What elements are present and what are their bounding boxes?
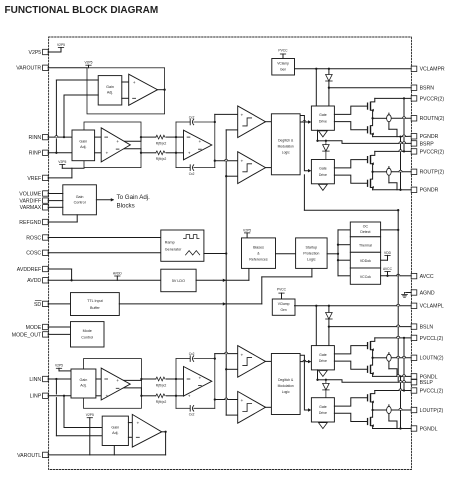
svg-text:Adj.: Adj. (80, 145, 86, 149)
node switch output (left N) (371, 357, 373, 359)
ground AGND (402, 293, 408, 298)
svg-text:RINP: RINP (29, 151, 42, 157)
wire gain adj to buffer R + (122, 81, 129, 83)
svg-text:References: References (249, 257, 268, 261)
comparator U5 (R bottom) (238, 152, 266, 184)
node switch output (right N) (371, 117, 373, 119)
capacitor C3 Cx2 (top) (189, 352, 195, 361)
hop BSRP over PVCC bus (402, 142, 405, 144)
wire resistor R2 to integrator (166, 152, 176, 154)
svg-text:BSLP: BSLP (420, 380, 434, 386)
biases and references block (242, 238, 276, 269)
op-amp U2 diff input R (101, 128, 130, 162)
svg-text:RINN: RINN (29, 135, 42, 141)
pin PVCCR(2) (411, 96, 444, 103)
hop PGNDL over PVCC bus (402, 375, 405, 377)
svg-text:Cx2: Cx2 (189, 352, 195, 356)
5V LDO block (161, 269, 196, 292)
wire SD to startup logic (262, 268, 312, 304)
gate drive block (left N) (311, 346, 334, 370)
svg-text:AVDD: AVDD (27, 278, 41, 284)
transistor Q high (right P) (367, 155, 374, 165)
svg-text:+: + (188, 152, 191, 157)
transistor Q high (left P) (367, 393, 374, 403)
node ramp comp stub RN (225, 175, 227, 177)
node RINN riser (63, 136, 65, 138)
svg-text:Adj.: Adj. (80, 383, 86, 387)
hop LOUTP over PGND bus (399, 408, 402, 410)
supply V2P5 (buffer R) (84, 60, 92, 67)
wire PGND line (left P) (373, 428, 412, 430)
svg-text:AVDDREF: AVDDREF (17, 267, 41, 273)
wire VAROUTR to buffer feedback box (48, 67, 87, 69)
svg-text:TTL Input: TTL Input (87, 299, 103, 303)
wire PVCC rail (right P) (375, 150, 411, 152)
node integrator R in+ (175, 136, 177, 138)
wire gain adj to buffer L - (128, 436, 132, 438)
mode control block (71, 322, 105, 347)
node RINP riser (55, 152, 57, 154)
svg-text:BSLN: BSLN (420, 325, 434, 331)
capacitor C1 Cx2 (top) (189, 115, 195, 125)
wire source low to PGND (left N) (371, 374, 372, 377)
svg-text:LOUTP(2): LOUTP(2) (420, 408, 444, 414)
svg-text:BSRP: BSRP (420, 141, 435, 147)
wire comparator U5 out (266, 167, 272, 169)
svg-text:V2P5: V2P5 (58, 160, 66, 164)
wire fault rail to mod logic R (304, 175, 399, 212)
svg-text:PGNDR: PGNDR (420, 134, 439, 140)
wire vclamp to gate drive RN (315, 69, 317, 106)
wire integrator L in+ (176, 378, 184, 380)
svg-text:+: + (105, 152, 108, 157)
wire vclamp to diode LN (328, 306, 330, 313)
hop ROUTP over PGND bus (399, 170, 402, 172)
svg-text:Cx2: Cx2 (189, 412, 195, 416)
wire diff amp L out+ (118, 379, 141, 380)
pin LOUTN(2) (411, 355, 444, 362)
svg-text:Mode: Mode (83, 329, 92, 333)
pin PVCCR(2) (411, 149, 444, 156)
vclamp gen block L (272, 299, 295, 315)
pin COSC (26, 250, 48, 257)
wire drain low to node (right P) (371, 172, 372, 179)
wire gate high (left N) (334, 346, 367, 354)
current sense (right P) (387, 167, 397, 190)
comparator U9 (L bottom) (238, 391, 266, 423)
gate drive block (right P) (311, 160, 334, 184)
wire diff amp L out- (118, 388, 141, 396)
label to gain adj blocks (117, 194, 151, 209)
bus PVCCL vertical (403, 337, 405, 392)
svg-text:COSC: COSC (26, 251, 41, 257)
svg-text:Modulation: Modulation (278, 145, 294, 149)
wire ramp to comparator C2 R (226, 175, 238, 177)
wire resistor R1 to integrator (166, 136, 176, 138)
wire VAROUTL (48, 454, 165, 456)
wire integrator R out+ to comparator (215, 114, 238, 122)
svg-text:+: + (240, 159, 243, 164)
node LINP riser (63, 395, 65, 397)
svg-text:Protection: Protection (303, 251, 319, 255)
wire V2P5 pin (48, 51, 61, 53)
diode D3 bootstrap LN (326, 313, 333, 320)
svg-text:Gate: Gate (319, 167, 327, 171)
wire comparator U8 out (266, 360, 272, 362)
wire integrator R in+ (176, 136, 184, 138)
wire VOLUME (48, 193, 63, 195)
svg-text:V2P5: V2P5 (28, 50, 41, 56)
svg-text:ROUTN(2): ROUTN(2) (420, 116, 445, 122)
svg-text:+: + (116, 379, 119, 384)
wire PVCC rail (left P) (375, 390, 411, 392)
hop ROUTN over PVCC bus (402, 117, 405, 119)
pin BSLN (411, 324, 433, 331)
svg-text:+: + (198, 140, 201, 145)
wire output line (right N) (373, 117, 412, 119)
svg-text:ROSC: ROSC (26, 235, 41, 241)
wire drain low to node (left P) (371, 410, 372, 417)
svg-text:Gate: Gate (319, 113, 327, 117)
svg-text:OC: OC (363, 225, 369, 229)
svg-text:Gate: Gate (319, 353, 327, 357)
wire buffer R output (158, 89, 165, 91)
node LINN riser (55, 378, 57, 380)
svg-text:Deglitch &: Deglitch & (278, 139, 294, 143)
wire to diff amp R in- (95, 152, 102, 154)
supply V2P5 (input stage R) (58, 160, 84, 168)
node bracket feed (337, 253, 339, 255)
svg-text:PVCCL(2): PVCCL(2) (420, 336, 444, 342)
svg-text:Drive: Drive (319, 119, 327, 123)
thermal block (350, 237, 380, 253)
wire source high to node (right N) (371, 110, 372, 118)
pin RINP (29, 150, 48, 157)
svg-text:VARDIFF: VARDIFF (19, 199, 41, 205)
wire BSLN line (329, 326, 411, 328)
wire to resistor R4 (141, 395, 155, 397)
transistor Q high (right N) (367, 102, 374, 112)
svg-text:ROUTP(2): ROUTP(2) (420, 170, 445, 176)
ramp generator block (161, 230, 204, 261)
op-amp U7 integrator L (184, 367, 212, 400)
wire gate high (right N) (334, 106, 367, 114)
svg-text:VCLAMPR: VCLAMPR (420, 67, 445, 73)
hop BSRP over PGND bus (399, 142, 402, 144)
wire to resistor R1 (141, 136, 156, 138)
svg-text:MODE_OUT: MODE_OUT (12, 332, 42, 338)
op-amp U1 buffer R (129, 74, 158, 105)
gain adj block (input stage R) (72, 130, 95, 161)
wire gate high (right P) (334, 160, 367, 168)
wire gate low (right N) (334, 122, 367, 130)
wire BSLP line (326, 380, 411, 382)
diode D1 bootstrap RN (326, 75, 333, 82)
node stage L out+ (140, 378, 142, 380)
ground marker under gate drive (right N) (319, 131, 328, 137)
svg-text:+: + (240, 353, 243, 358)
svg-text:Ramp: Ramp (165, 240, 175, 244)
title (5, 5, 159, 16)
wire to diff amp L in- (96, 395, 101, 397)
feedback loop box U2 (input stage R) (84, 122, 141, 168)
svg-text:V2P5: V2P5 (55, 364, 63, 368)
node AVCC tap (386, 275, 388, 277)
pin BSRP (411, 141, 434, 148)
pin V2P5 (28, 49, 48, 56)
supply PVCC (clamp R) (278, 48, 288, 58)
node bracket vddok (337, 259, 339, 261)
wire VARMAX (48, 206, 63, 208)
pin AVCC (411, 273, 434, 280)
pin RINN (29, 134, 49, 141)
svg-text:Cx2: Cx2 (189, 172, 195, 176)
pin ROUTP(2) (411, 169, 444, 176)
wire 5V LDO output (196, 279, 249, 281)
svg-text:VClamp: VClamp (278, 302, 290, 306)
svg-text:Drive: Drive (319, 173, 327, 177)
wire output line (left N) (373, 357, 412, 359)
hop VCLAMPL over fault rail (397, 304, 400, 306)
resistor R3 Rfbx2 (156, 377, 167, 387)
svg-text:VAROUTR: VAROUTR (16, 66, 41, 72)
pin MODE (26, 324, 49, 331)
wire OC detect to fault rail (381, 229, 399, 231)
node diode LP feed (325, 379, 327, 381)
svg-text:VOLUME: VOLUME (19, 191, 41, 197)
pin VARDIFF (19, 198, 48, 205)
svg-text:V2P5: V2P5 (86, 413, 94, 417)
svg-text:+: + (116, 140, 119, 145)
svg-text:Drive: Drive (319, 411, 327, 415)
wire monitor bracket (338, 230, 350, 276)
wire RINN (48, 136, 72, 138)
wire to diff amp L in+ (96, 378, 101, 380)
wire biases to startup (276, 253, 296, 255)
wire source high to node (left P) (371, 402, 372, 410)
gain adj block (buffer R) (98, 76, 122, 105)
gain adj block (input stage L) (71, 369, 96, 398)
pin PVCCL(2) (411, 388, 443, 395)
node stage L out- (140, 395, 142, 397)
svg-text:Biases: Biases (253, 245, 264, 249)
svg-text:PGNDL: PGNDL (420, 426, 438, 432)
wire drain low to node (right N) (371, 118, 372, 125)
gate drive block (right N) (311, 106, 334, 130)
svg-text:Modulation: Modulation (278, 384, 294, 388)
wire to resistor R3 (141, 378, 155, 380)
wire PGND line (right P) (373, 189, 412, 191)
pin BSRN (411, 85, 434, 92)
node ramp comp stub LN (225, 368, 227, 370)
svg-text:Adj.: Adj. (107, 90, 113, 94)
wire resistor R3 to integrator L (166, 378, 176, 380)
comparator U8 (L top) (238, 346, 266, 378)
svg-text:Drive: Drive (319, 359, 327, 363)
svg-text:Startup: Startup (306, 245, 318, 249)
wire source high to node (left N) (371, 350, 372, 358)
pin VCLAMPR (411, 66, 445, 73)
wire VCLAMPR line (295, 68, 412, 70)
wire COSC (48, 252, 161, 254)
svg-text:5V LDO: 5V LDO (172, 279, 185, 283)
node fault rail OC (397, 229, 399, 231)
hop LOUTN over fault rail (397, 356, 400, 358)
wire ROSC (48, 237, 161, 239)
supply V2P5 (input stage L) (55, 364, 71, 371)
ground marker under gate drive (left N) (319, 371, 328, 377)
wire MODE_OUT (48, 333, 70, 335)
svg-text:Adj.: Adj. (112, 431, 118, 435)
node integrator L out+ (corner) (214, 357, 216, 359)
wire riser LINN to buffer L (56, 379, 102, 436)
wire integrator L out+ to comparator (215, 352, 238, 359)
transistor Q low (left P) (367, 417, 374, 427)
svg-text:VARMAX: VARMAX (20, 205, 42, 211)
wire integrator R out- to comparator (215, 159, 238, 161)
wire vclamp to diode RN (328, 69, 330, 75)
svg-text:+: + (105, 395, 108, 400)
node buffer L output (164, 431, 166, 433)
modulation logic block R (271, 114, 300, 175)
OC detect block (350, 222, 380, 237)
pin LINN (29, 376, 48, 383)
svg-text:+: + (133, 81, 136, 86)
svg-text:VCCok: VCCok (360, 275, 371, 279)
pin PGNDL (411, 426, 437, 433)
svg-text:LINP: LINP (30, 394, 42, 400)
svg-text:Gain: Gain (111, 426, 119, 430)
wire integrator L out- to comparator (215, 398, 238, 400)
svg-text:VAROUTL: VAROUTL (17, 453, 41, 459)
pin VAROUTR (16, 65, 48, 72)
startup protection logic block (296, 238, 328, 269)
wire comparator U4 out (266, 121, 272, 123)
op-amp U3 integrator R (184, 130, 212, 160)
wire AVDD to biases (248, 268, 250, 280)
feedback box U3 (integrator R) with caps (176, 122, 215, 168)
node stage R out- (140, 152, 142, 154)
pin VREF (27, 175, 48, 182)
wire PVCC rail (right N) (375, 97, 411, 99)
pin SD (34, 301, 48, 308)
svg-text:Logic: Logic (282, 390, 290, 394)
wire gate high (left P) (334, 398, 367, 406)
op-amp U6 diff input L (101, 368, 130, 400)
svg-text:R(fb)x2: R(fb)x2 (156, 400, 167, 404)
svg-text:+: + (198, 376, 201, 381)
wire PGND line (left N) (373, 375, 412, 377)
pin REFGND (19, 219, 48, 226)
svg-text:+: + (240, 114, 243, 119)
wire drain low to node (left N) (371, 358, 372, 365)
TTL input buffer block (71, 293, 120, 316)
pin PVCCL(2) (411, 335, 443, 342)
wire output line (left P) (373, 409, 412, 411)
svg-text:PVCCR(2): PVCCR(2) (420, 96, 445, 102)
wire source low to PGND (left P) (371, 426, 372, 429)
pin ROUTN(2) (411, 116, 444, 123)
wire BSRN line (329, 87, 411, 89)
resistor R4 Rfbx2 (156, 394, 167, 404)
wire drain high to PVCC (right P) (371, 151, 375, 155)
svg-text:R(fb)x2: R(fb)x2 (156, 142, 167, 146)
pin VAROUTL (17, 452, 48, 459)
svg-text:V2P5: V2P5 (84, 60, 92, 64)
svg-text:Gain: Gain (76, 195, 84, 199)
svg-text:Cx2: Cx2 (189, 115, 195, 119)
svg-text:PVCCL(2): PVCCL(2) (420, 388, 444, 394)
node integrator L in- (175, 395, 177, 397)
hop BSLP over PVCC bus (402, 381, 405, 383)
wire source low to PGND (right N) (371, 134, 372, 137)
comparator U4 (R top) (238, 106, 266, 138)
wire ramp to comparator C1 R (226, 129, 238, 131)
node bracket thermal (337, 244, 339, 246)
capacitor C4 Cx2 (bottom) (189, 406, 195, 417)
wire integrator R in- (176, 152, 184, 154)
current sense (right N) (387, 113, 397, 137)
transistor Q low (right P) (367, 179, 374, 189)
wire gate low (right P) (334, 175, 367, 183)
wire integrator L in- (176, 395, 184, 397)
svg-text:Gain: Gain (80, 378, 88, 382)
modulation logic block L (271, 354, 300, 415)
svg-text:AVDD: AVDD (113, 271, 123, 275)
gain adj block (buffer L) (102, 416, 128, 445)
supply AVDD tap (113, 271, 123, 280)
wire startup to monitor bracket (327, 253, 338, 255)
pin PGNDR (411, 134, 438, 141)
node stage R out+ (140, 136, 142, 138)
VDDok block (350, 252, 380, 268)
wire VCCok to AVCC pin (381, 274, 412, 276)
gain control block (63, 185, 97, 215)
arrow gain control output (96, 198, 114, 201)
svg-text:Thermal: Thermal (359, 243, 372, 247)
wire diode RN to BSRN (328, 81, 330, 106)
wire gain adj to buffer L + (128, 422, 132, 424)
svg-text:+: + (136, 422, 139, 427)
wire source low to PGND (right P) (371, 188, 372, 190)
svg-text:AVCC: AVCC (383, 267, 393, 271)
wire drain high to PVCC (left P) (371, 391, 375, 394)
hop PGNDR over PVCC bus (402, 135, 405, 137)
feedback box U7 (integrator L) with caps (176, 359, 215, 409)
diode D4 bootstrap LP (323, 380, 330, 398)
dashed chip boundary (49, 37, 412, 470)
wire fault rail (397, 210, 399, 381)
wire gate low (left P) (334, 413, 367, 421)
pin AVDDREF (17, 266, 48, 273)
wire SD input (48, 303, 70, 305)
current sense (left P) (387, 405, 397, 429)
supply VDD tap (381, 251, 392, 260)
wire mod to gate drive LN (300, 360, 311, 363)
svg-text:LINN: LINN (29, 377, 41, 383)
wire drain high to PVCC (right N) (371, 98, 375, 102)
arrow TTL into rail (223, 302, 226, 305)
wire ramp rail (225, 130, 227, 415)
svg-text:PVCC: PVCC (277, 288, 287, 292)
pin VARMAX (20, 205, 49, 212)
wire drain high to PVCC (left N) (371, 338, 375, 342)
supply AVCC tap (383, 267, 393, 276)
wire ramp to comparator C1 L (226, 368, 238, 370)
op-amp U10 buffer L (132, 414, 161, 447)
wire output line (right P) (373, 171, 412, 173)
svg-text:Logic: Logic (282, 151, 290, 155)
